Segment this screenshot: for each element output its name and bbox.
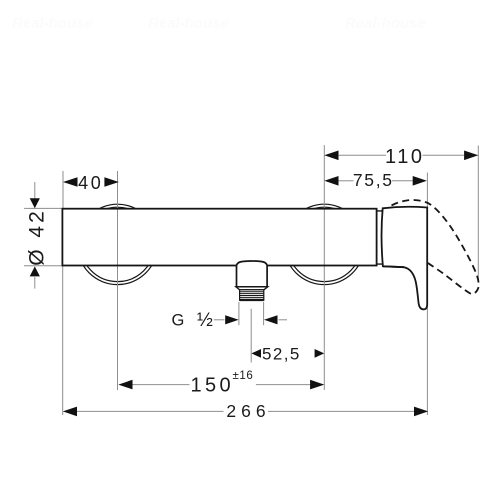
- svg-text:40: 40: [78, 173, 103, 193]
- svg-text:½: ½: [197, 310, 213, 331]
- svg-text:150: 150: [191, 374, 235, 396]
- svg-text:Real-house: Real-house: [148, 15, 229, 32]
- svg-text:110: 110: [385, 146, 425, 168]
- svg-text:75,5: 75,5: [353, 170, 394, 190]
- svg-text:Ø 42: Ø 42: [26, 208, 49, 266]
- svg-text:Real-house: Real-house: [12, 15, 93, 32]
- svg-text:266: 266: [226, 401, 270, 421]
- svg-text:Real-house: Real-house: [345, 15, 426, 32]
- svg-text:±16: ±16: [233, 370, 254, 382]
- svg-text:52,5: 52,5: [262, 345, 301, 364]
- svg-text:G: G: [172, 312, 185, 330]
